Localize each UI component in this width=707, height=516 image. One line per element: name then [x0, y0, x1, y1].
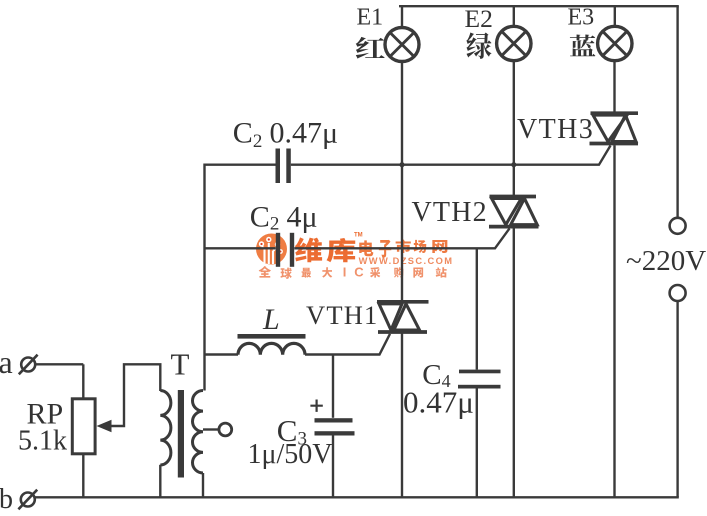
svg-text:E2: E2	[465, 4, 493, 33]
wire E3 lamp top	[614, 6, 616, 26]
svg-text:C: C	[354, 265, 364, 280]
wire left rail	[203, 164, 205, 391]
wire E1 lamp to VTH1	[401, 61, 403, 300]
lamp E1	[385, 28, 419, 62]
lamp E2	[497, 26, 531, 60]
svg-text:WWW.DZSC.COM: WWW.DZSC.COM	[359, 256, 454, 266]
watermark: dzsc.com logo and text	[256, 233, 453, 280]
wire primary bottom	[159, 465, 161, 498]
wire RP wiper to primary	[109, 364, 160, 426]
capacitor C4 plates	[458, 370, 501, 389]
label red lamp hong	[356, 37, 385, 59]
capacitor C3 plates	[315, 418, 355, 435]
svg-text:b: b	[0, 484, 13, 511]
lamp E3	[598, 26, 632, 60]
svg-text:T: T	[171, 347, 190, 382]
potentiometer RP body	[72, 399, 95, 454]
wire E2 lamp to VTH2	[513, 61, 515, 197]
svg-text:VTH2: VTH2	[412, 197, 488, 228]
svg-text:VTH1: VTH1	[306, 300, 379, 330]
wire terminal a to RP	[35, 363, 83, 365]
terminal b	[18, 490, 37, 510]
svg-text:E1: E1	[357, 5, 384, 31]
svg-text:E3: E3	[568, 4, 595, 30]
capacitor C2 0.47u plates	[276, 149, 291, 184]
wire VTH2 to bottom bus	[513, 228, 515, 497]
wire C3 top	[332, 355, 334, 418]
transformer T core	[178, 390, 184, 478]
wire RP bottom	[82, 454, 84, 497]
wire VTH1 to bottom bus	[401, 334, 403, 498]
supply terminal lower	[670, 285, 686, 301]
svg-text:TM: TM	[354, 233, 363, 239]
wire down to RP top	[82, 364, 84, 399]
wire C4 top	[476, 248, 478, 369]
svg-text:5.1k: 5.1k	[18, 426, 67, 457]
wire C2 to VTH3 gate	[205, 146, 611, 165]
wire C3 bottom	[332, 435, 334, 497]
wire E1 lamp top	[401, 6, 403, 28]
wire E2 lamp top	[513, 6, 515, 26]
triac VTH3	[590, 113, 639, 143]
wire L to VTH1 gate	[305, 334, 390, 355]
transformer secondary tap with terminal	[203, 423, 232, 436]
svg-text:VTH3: VTH3	[517, 114, 594, 145]
junction node at C2 wire and E2 branch	[511, 162, 516, 167]
wire right rail lower	[676, 301, 678, 497]
junction node at C2 wire and E1 branch	[399, 162, 404, 167]
wire C1 to VTH2 gate	[205, 228, 510, 248]
wire E3 lamp to VTH3	[613, 61, 615, 112]
svg-text:1μ/50V: 1μ/50V	[248, 439, 333, 470]
svg-text:C20.47μ: C20.47μ	[233, 116, 338, 152]
triac VTH2	[489, 197, 539, 227]
transformer T primary winding	[160, 391, 171, 466]
capacitor C3 polarity plus	[310, 400, 322, 412]
label blue lamp lan	[570, 35, 596, 57]
wire right rail upper	[676, 6, 678, 218]
inductor L with core bar	[238, 334, 306, 355]
wire secondary to L	[205, 353, 239, 355]
terminal a	[19, 355, 38, 375]
svg-text:a: a	[0, 344, 13, 380]
svg-text:0.47μ: 0.47μ	[403, 385, 474, 420]
potentiometer RP wiper arrow	[97, 420, 112, 432]
svg-text:~220V: ~220V	[626, 245, 706, 277]
wire C4 bottom	[476, 388, 478, 497]
capacitor C2 4u plates	[276, 233, 294, 267]
wire VTH3 to bottom bus	[613, 145, 615, 497]
svg-text:L: L	[262, 303, 280, 336]
supply terminal upper	[670, 218, 686, 234]
wire top supply bus	[399, 5, 679, 7]
wire bottom supply bus	[35, 496, 679, 498]
label green lamp lv	[466, 32, 491, 58]
transformer T secondary winding	[193, 391, 204, 474]
svg-text:I: I	[343, 265, 347, 280]
triac VTH1	[377, 302, 429, 332]
wire secondary bottom	[202, 473, 204, 497]
